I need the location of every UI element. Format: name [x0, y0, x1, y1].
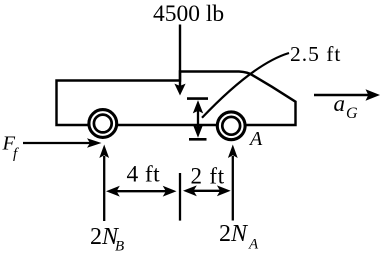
- 2.5 ft leader curve: [202, 53, 289, 118]
- acceleration arrow a_G: [314, 89, 380, 100]
- svg-text:4500 lb: 4500 lb: [153, 1, 224, 27]
- svg-text:A: A: [248, 128, 263, 150]
- svg-text:2.5 ft: 2.5 ft: [290, 42, 341, 66]
- svg-text:G: G: [346, 105, 358, 122]
- svg-text:a: a: [334, 91, 346, 116]
- wheel A (right, concentric circles): [217, 112, 245, 140]
- svg-text:A: A: [248, 237, 259, 253]
- 4500 lb force arrow: [174, 25, 185, 96]
- normal force 2N_A arrow: [228, 145, 238, 221]
- divider tick between 4 ft and 2 ft: [179, 173, 181, 221]
- car body outline: [57, 72, 296, 126]
- normal force 2N_B arrow: [99, 145, 109, 222]
- 4 ft dimension double arrow: [106, 186, 177, 197]
- 2.5 ft dimension: bottom tick bar: [189, 138, 207, 141]
- 2.5 ft dimension: vertical double arrow: [193, 100, 203, 138]
- svg-text:2N: 2N: [219, 221, 249, 247]
- svg-text:2 ft: 2 ft: [191, 164, 226, 189]
- svg-text:B: B: [115, 239, 124, 255]
- wheel B (left, concentric circles): [89, 110, 117, 138]
- 2.5 ft dimension: top tick bar: [187, 97, 208, 100]
- friction force F_f arrow: [23, 138, 102, 147]
- svg-text:4 ft: 4 ft: [127, 162, 161, 188]
- 2 ft dimension double arrow: [183, 185, 231, 196]
